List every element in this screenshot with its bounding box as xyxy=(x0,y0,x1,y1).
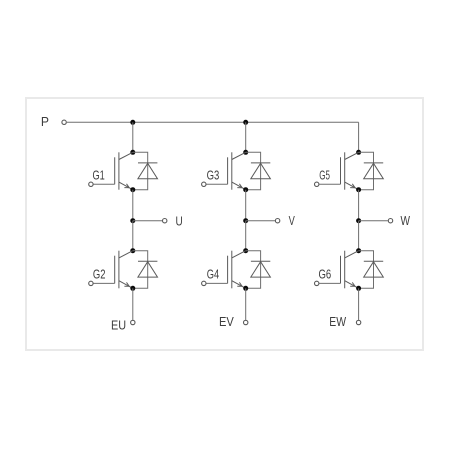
wire EW lead xyxy=(358,288,360,320)
terminal P xyxy=(62,120,66,124)
node Q1 collector xyxy=(130,150,135,155)
wire G3 gate lead xyxy=(206,183,227,185)
wire D3 connection xyxy=(246,152,261,189)
node Q3 collector xyxy=(243,150,248,155)
terminal G5 xyxy=(315,182,319,186)
terminal EV xyxy=(244,320,248,324)
terminal G4 xyxy=(202,281,206,285)
svg-text:G6: G6 xyxy=(319,267,332,282)
svg-text:P: P xyxy=(41,114,49,129)
terminal EU xyxy=(131,320,135,324)
junction rail/V leg xyxy=(243,120,248,125)
wire EV lead xyxy=(245,288,247,320)
wire U leg top xyxy=(132,122,134,152)
terminal G1 xyxy=(89,182,93,186)
junction rail/U leg xyxy=(130,120,135,125)
junction V output xyxy=(243,218,248,223)
diode D3 xyxy=(251,163,271,179)
transistor Q6 (IGBT) xyxy=(341,251,359,289)
wire G6 gate lead xyxy=(319,282,340,284)
wire W output stub xyxy=(359,220,388,222)
terminal G2 xyxy=(89,281,93,285)
node Q6 collector xyxy=(356,248,361,253)
svg-text:EV: EV xyxy=(219,314,234,329)
wire G1 gate lead xyxy=(94,183,115,185)
node Q5 collector xyxy=(356,150,361,155)
wire V output stub xyxy=(246,220,275,222)
svg-text:G2: G2 xyxy=(93,267,106,282)
svg-text:G4: G4 xyxy=(207,267,219,282)
wire D5 connection xyxy=(359,152,374,189)
svg-text:G5: G5 xyxy=(319,168,330,183)
node Q2 emitter xyxy=(130,286,135,291)
terminal V xyxy=(275,219,279,223)
wire EU lead xyxy=(132,288,134,320)
svg-text:V: V xyxy=(289,213,295,228)
wire D4 connection xyxy=(246,251,261,289)
node Q1 emitter xyxy=(130,187,135,192)
wire W leg lower xyxy=(358,221,360,251)
node Q4 collector xyxy=(243,248,248,253)
svg-text:G1: G1 xyxy=(93,168,105,183)
terminal U xyxy=(163,219,167,223)
node Q6 emitter xyxy=(356,286,361,291)
diode D1 xyxy=(138,163,158,179)
node Q4 emitter xyxy=(243,286,248,291)
wire D2 connection xyxy=(133,251,148,289)
svg-text:EW: EW xyxy=(329,314,346,329)
wire U leg lower xyxy=(132,221,134,251)
wire W leg middle xyxy=(358,190,360,221)
node Q2 collector xyxy=(130,248,135,253)
junction W output xyxy=(356,218,361,223)
diode D6 xyxy=(364,261,384,277)
wire U leg middle xyxy=(132,190,134,221)
junction U output xyxy=(130,218,135,223)
wire W leg top xyxy=(358,122,360,152)
diode D4 xyxy=(251,261,271,277)
transistor Q4 (IGBT) xyxy=(228,251,246,289)
transistor Q5 (IGBT) xyxy=(341,152,359,189)
svg-text:U: U xyxy=(176,214,183,229)
wire V leg middle xyxy=(245,190,247,221)
terminal EW xyxy=(356,320,360,324)
diode D2 xyxy=(138,261,158,277)
transistor Q2 (IGBT) xyxy=(115,251,133,289)
wire U output stub xyxy=(133,220,162,222)
wire D1 connection xyxy=(133,152,148,189)
svg-text:W: W xyxy=(401,213,411,228)
wire V leg top xyxy=(245,122,247,152)
transistor Q3 (IGBT) xyxy=(228,152,246,189)
svg-text:G3: G3 xyxy=(207,168,220,183)
wire D6 connection xyxy=(359,251,374,289)
terminal G6 xyxy=(315,281,319,285)
node Q3 emitter xyxy=(243,187,248,192)
wire V leg lower xyxy=(245,221,247,251)
terminal W xyxy=(388,219,392,223)
svg-text:EU: EU xyxy=(111,317,126,332)
terminal G3 xyxy=(202,182,206,186)
wire G5 gate lead xyxy=(319,183,340,185)
node Q5 emitter xyxy=(356,187,361,192)
transistor Q1 (IGBT) xyxy=(115,152,133,189)
wire G2 gate lead xyxy=(94,282,115,284)
wire P rail xyxy=(67,121,359,123)
wire G4 gate lead xyxy=(206,282,227,284)
diode D5 xyxy=(364,163,384,179)
